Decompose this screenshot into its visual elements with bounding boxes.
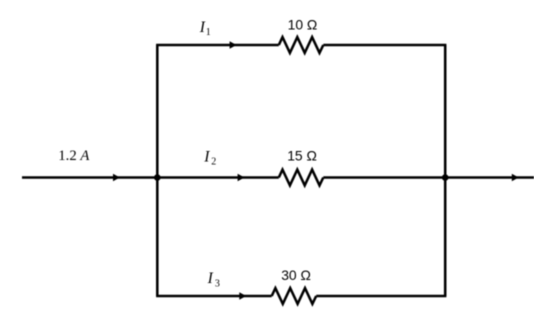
svg-text:1: 1 [206,27,211,38]
wire left vertical bus [156,45,159,296]
svg-text:I: I [203,149,210,166]
arrow I3 [239,292,246,300]
wire bottom branch left segment [156,295,272,298]
wire input lead [22,176,157,179]
arrow input current [113,174,120,182]
resistor R1 10 ohm [279,37,324,53]
svg-text:30 Ω: 30 Ω [281,267,311,283]
svg-text:2: 2 [211,157,216,168]
arrow I2 [238,174,245,182]
arrow output current [512,174,519,182]
svg-text:15 Ω: 15 Ω [287,148,317,164]
svg-text:I: I [207,270,214,287]
wire top branch left segment [156,44,279,47]
svg-text:I: I [199,19,206,36]
arrow I1 [230,41,237,49]
wire bottom branch right segment [316,295,446,298]
wire top branch right segment [323,44,446,47]
node right junction [442,174,449,181]
wire middle branch right segment [323,176,445,179]
svg-text:10 Ω: 10 Ω [288,17,318,33]
wire middle branch left segment [157,176,278,179]
svg-text:1.2 A: 1.2 A [58,148,90,164]
node left junction [154,174,161,181]
wire right vertical bus [444,45,447,296]
wire output lead [445,176,534,179]
svg-text:3: 3 [215,278,220,289]
resistor R3 30 ohm [272,288,317,304]
resistor R2 15 ohm [279,170,324,186]
